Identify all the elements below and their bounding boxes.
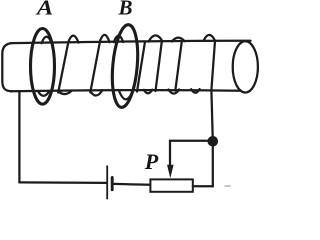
- svg-text:P: P: [144, 149, 159, 174]
- svg-text:B: B: [118, 0, 133, 20]
- svg-text:A: A: [35, 0, 53, 19]
